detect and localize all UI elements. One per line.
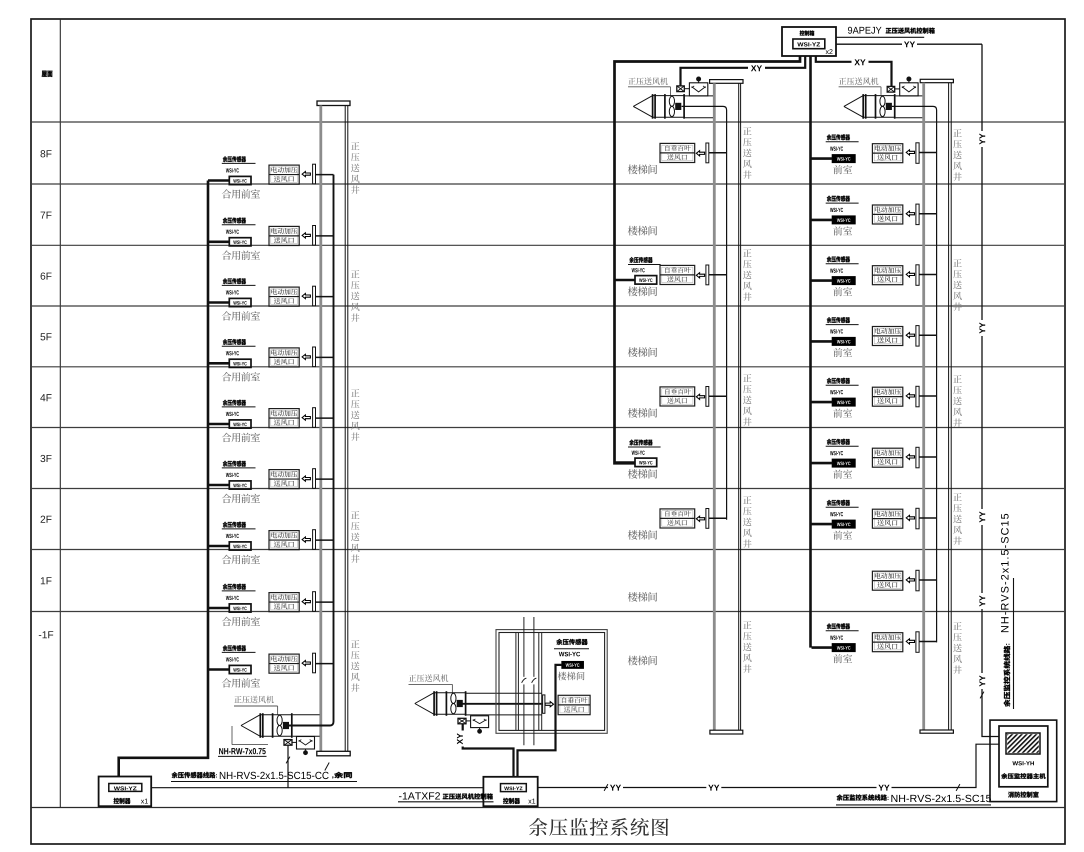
pressure sensor box WSI-YC (8F left) [229, 176, 251, 184]
air outlet 自垂百叶送风口 (6F middle) [660, 265, 695, 284]
floor label 8F [40, 150, 51, 157]
sensor label 余压传感器 / WSI-YC (6F middle) [628, 257, 661, 272]
room label 前室 (7F right) [833, 226, 852, 235]
floor line 8 [31, 611, 1065, 613]
damper blade (1F left) [313, 592, 316, 612]
air flow arrow (-1F stairwell) [545, 702, 553, 707]
pressure sensor box WSI-YC (1F left) [229, 604, 251, 612]
sensor label 余压传感器 / WSI-YC (1F left) [222, 584, 256, 600]
wire sensor-to-bus (5F right) [812, 340, 833, 343]
floor label -1F [39, 631, 53, 638]
right shaft base [920, 730, 953, 733]
wire sensor-to-bus (7F right) [812, 219, 833, 222]
air flow arrow (3F left) [302, 476, 310, 481]
wire damper-to-riser (4F right) [919, 395, 937, 397]
sensor label 余压传感器 / WSI-YC (4F right) [826, 378, 859, 395]
room label 合用前室 (2F left) [222, 555, 260, 564]
wire damper-to-riser (2F right) [919, 517, 937, 519]
label 9APEJY 正压送风机控制箱 [836, 27, 935, 38]
air outlet 电动加压送风口 (6F left) [269, 287, 299, 306]
air flow arrow (4F left) [302, 415, 310, 420]
wire damper-to-riser (8F middle) [709, 152, 727, 154]
floor line 4 [31, 366, 1065, 368]
wire damper-to-riser (8F left) [316, 174, 334, 176]
cable label 余压监控系统线路:NH-RVS-2x1.5-SC15 (bottom) [836, 794, 991, 805]
left shaft walls [321, 106, 348, 752]
wire damper-to-riser (7F right) [919, 213, 937, 215]
wire damper-to-riser (5F right) [919, 334, 937, 336]
damper blade (-1F stairwell) [543, 695, 545, 713]
middle shaft walls [714, 83, 740, 730]
wire sensor-to-bus (6F middle) [615, 279, 636, 282]
sensor label 余压传感器 / WSI-YC (8F right) [826, 134, 859, 151]
left shaft vertical label 正压送风井 #5 [351, 640, 360, 692]
floor label 4F [40, 394, 51, 401]
fan 正压送风机 (-1F left) [241, 713, 293, 738]
wire damper-to-riser (6F right) [919, 274, 937, 276]
air flow arrow (5F left) [302, 354, 310, 359]
controller box WSI-YZ (bottom left) [99, 777, 152, 807]
wire damper-to-riser (3F left) [316, 478, 334, 480]
floor label 2F [41, 516, 52, 523]
damper blade (5F right) [916, 326, 919, 347]
motorized damper actuator (right roof) [895, 77, 918, 96]
pressure sensor box WSI-YC (5F right) [832, 338, 855, 346]
air outlet 自垂百叶送风口 (8F middle) [660, 143, 695, 162]
wire YY (-1ATXF2 to fire control room) [538, 744, 999, 792]
cable label 余压传感器线路:NH-RVS-2x1.5-SC15-CC,余同 [171, 763, 357, 782]
fan label 正压送风机 (-1F middle) [409, 674, 453, 693]
right shaft vertical label 正压送风井 #2 [953, 259, 962, 311]
fan label 正压送风机 (-1F left) [234, 696, 278, 715]
wire sensor-to-bus (-1F right) [812, 646, 833, 649]
floor label 1F [41, 577, 52, 584]
drawing title 余压监控系统图 [529, 818, 668, 836]
middle shaft vertical label 正压送风井 #3 [743, 374, 752, 426]
floor label 屋面 [42, 71, 53, 77]
room label 合用前室 (4F left) [222, 433, 260, 442]
air flow arrow (6F right) [906, 272, 914, 277]
wire damper-to-riser (1F right) [919, 579, 937, 581]
wire damper-to-riser (-1F left) [316, 663, 334, 665]
middle sensor bus wire (vertical from control box to 3F) [615, 56, 801, 463]
wire sensor-to-bus (2F left) [208, 545, 229, 548]
room label 楼梯间 (6F middle) [628, 286, 657, 296]
air flow arrow (8F middle) [696, 151, 704, 156]
air outlet 自垂百叶送风口 (2F middle) [660, 509, 695, 528]
controller box -1ATXF2 (bottom middle) [483, 777, 537, 806]
middle supply-air shaft cap [710, 80, 743, 84]
air outlet 电动加压送风口 (5F left) [269, 348, 299, 367]
room label 楼梯间 (4F middle) [628, 408, 657, 418]
damper blade (-1F right) [916, 632, 919, 653]
damper blade (2F right) [916, 508, 919, 529]
junction box (middle roof fan) [677, 86, 685, 92]
pressure sensor box WSI-YC (6F right) [832, 277, 855, 285]
damper blade (3F right) [916, 447, 919, 468]
sensor label 余压传感器 / WSI-YC (2F right) [826, 500, 859, 517]
air outlet 自垂百叶送风口 (-1F stairwell) [558, 695, 590, 714]
monitor host WSI-YH 余压监控器主机 [999, 726, 1048, 787]
wire junction-box down to controller line (-1F left) [286, 745, 290, 788]
air outlet 电动加压送风口 (3F left) [269, 470, 299, 489]
pressure sensor box WSI-YC (3F left) [229, 481, 251, 489]
motorized damper actuator (middle roof) [684, 77, 708, 96]
damper blade (4F left) [313, 408, 316, 428]
damper blade (8F middle) [706, 143, 709, 163]
air outlet 电动加压送风口 (8F right) [872, 144, 902, 163]
wire sensor-to-bus (3F middle) [615, 461, 636, 464]
middle shaft base [710, 730, 743, 734]
wire sensor-to-bus (6F left) [208, 301, 229, 304]
left shaft vertical label 正压送风井 #2 [351, 270, 360, 322]
floor label 3F [40, 455, 51, 462]
room label 合用前室 (1F left) [222, 617, 260, 626]
air outlet 自垂百叶送风口 (4F middle) [660, 387, 695, 406]
air flow arrow (1F right) [906, 577, 914, 582]
pressure sensor box WSI-YC (2F right) [832, 520, 855, 528]
air flow arrow (4F right) [906, 393, 914, 398]
air flow arrow (6F left) [302, 294, 310, 299]
fan 正压送风机 (right roof) [844, 94, 896, 119]
cable label NH-RW-7x0.75 with leader [218, 726, 268, 756]
sensor label 余压传感器 / WSI-YC (7F right) [826, 196, 859, 213]
air flow arrow (-1F left) [302, 661, 310, 666]
air flow arrow (-1F right) [906, 639, 914, 644]
right shaft vertical label 正压送风井 #1 [953, 129, 962, 181]
air flow arrow (2F right) [906, 515, 914, 520]
sensor label 余压传感器 / WSI-YC (5F left) [222, 339, 256, 355]
supply wire fan axis (-1F middle) [462, 703, 543, 705]
air flow arrow (2F middle) [696, 516, 704, 521]
sensor label 余压传感器 / WSI-YC (3F left) [222, 461, 256, 477]
duct fan-to-shaft (-1F left) [293, 715, 320, 737]
pressure sensor box WSI-YC (-1F left) [229, 665, 251, 673]
wire damper-to-riser (6F left) [316, 296, 334, 298]
pressure sensor box WSI-YC (4F right) [832, 398, 855, 406]
sensor label 余压传感器 / WSI-YC (4F left) [222, 400, 256, 416]
wire sensor-to-bus (1F left) [208, 607, 229, 610]
floor label 5F [40, 333, 51, 340]
left supply-air shaft 正压送风井 (cap) [317, 101, 350, 106]
damper blade (7F right) [916, 204, 919, 225]
duct fan-to-shaft (right roof) [896, 96, 923, 118]
damper blade (8F left) [313, 164, 316, 184]
wire sensor-to-bus (8F right) [812, 157, 833, 160]
wire sensor-to-bus (4F right) [812, 401, 833, 404]
wire damper-to-riser (-1F right) [919, 641, 937, 643]
damper blade (-1F left) [313, 653, 316, 673]
wire sensor-to-bus (2F right) [812, 523, 833, 526]
left shaft vertical label 正压送风井 #1 [351, 142, 360, 194]
wire sensor-to-bus (6F right) [812, 279, 833, 282]
sensor label 余压传感器 / WSI-YC (6F left) [222, 278, 256, 294]
wire damper-to-riser (5F left) [316, 356, 334, 358]
air flow arrow (1F left) [302, 599, 310, 604]
wire damper-to-riser (2F left) [316, 539, 334, 541]
floor line 6 [31, 488, 1065, 490]
middle shaft riser duct line [682, 106, 727, 519]
wire damper-to-riser (3F right) [919, 456, 937, 458]
wire damper-to-riser (8F right) [919, 152, 937, 154]
air flow arrow (7F left) [302, 233, 310, 238]
damper blade (2F left) [313, 530, 316, 550]
air flow arrow (6F middle) [696, 273, 704, 278]
damper blade (8F right) [916, 143, 919, 164]
room label 合用前室 (3F left) [222, 494, 260, 503]
floor line 5 [31, 427, 1065, 429]
wire XY junction-box to controller (-1F middle) [457, 724, 514, 777]
fan 正压送风机 (middle roof) [633, 94, 685, 119]
damper blade (6F middle) [706, 265, 709, 285]
floor line 7 [31, 549, 1065, 551]
pressure sensor box WSI-YC (3F middle) [635, 458, 657, 467]
sensor label 余压传感器 / WSI-YC (-1F stairwell) [554, 639, 589, 657]
middle shaft vertical label 正压送风井 #2 [743, 249, 752, 301]
wire sensor-to-bus (4F left) [208, 423, 229, 426]
wire sensor-to-bus (3F left) [208, 484, 229, 487]
air outlet 电动加压送风口 (6F right) [872, 266, 902, 285]
room label 合用前室 (7F left) [222, 251, 260, 260]
pressure sensor box WSI-YC (-1F stairwell) [562, 662, 583, 669]
damper blade (7F left) [313, 226, 316, 246]
motorized damper actuator (-1F left) [292, 737, 315, 756]
pressure sensor box WSI-YC (8F right) [832, 155, 855, 163]
pressure sensor box WSI-YC (6F middle) [635, 276, 657, 285]
room label 前室 (-1F right) [833, 654, 852, 663]
wire sensor-to-bus (3F right) [812, 462, 833, 465]
floor line 1 [31, 183, 1065, 185]
middle shaft vertical label 正压送风井 #1 [743, 127, 752, 179]
vertical duct through enclosure with break marks [522, 617, 537, 745]
left shaft riser duct line (from -1F fan up to 8F) [288, 175, 334, 726]
room label 合用前室 (8F left) [222, 189, 260, 198]
room label 前室 (5F right) [833, 348, 852, 357]
room label 前室 (6F right) [833, 287, 852, 296]
label -1ATXF2 正压送风机控制箱 [398, 792, 494, 802]
air outlet 电动加压送风口 (7F right) [872, 205, 902, 224]
motorized damper actuator (-1F middle) [466, 716, 489, 734]
floor label column line [59, 19, 61, 808]
pressure sensor box WSI-YC (-1F right) [832, 644, 855, 652]
stairwell enclosure walls (-1F middle) [496, 630, 607, 734]
sensor label 余压传感器 / WSI-YC (7F left) [222, 217, 256, 233]
air flow arrow (2F left) [302, 537, 310, 542]
wire XY (control box to middle roof fan) [681, 56, 806, 86]
room label 前室 (2F right) [833, 531, 852, 540]
room label 前室 (8F right) [833, 165, 852, 174]
middle shaft vertical label 正压送风井 #4 [743, 496, 752, 548]
air flow arrow (4F middle) [696, 394, 704, 399]
room label 楼梯间 (2F middle) [628, 530, 657, 540]
room label 楼梯间 (inside enclosure) [558, 672, 585, 681]
right shaft walls [924, 83, 952, 730]
fire control room 消防控制室 outer box [990, 720, 1057, 802]
room label 前室 (3F right) [833, 470, 852, 479]
sensor label 余压传感器 / WSI-YC (3F middle) [628, 439, 661, 454]
duct fan-to-shaft (middle roof) [685, 96, 713, 118]
wire damper-to-riser (4F middle) [709, 395, 727, 397]
air outlet 电动加压送风口 (5F right) [872, 327, 902, 346]
wire YY vertical (right edge, down to fire control room) [978, 44, 1000, 736]
floor label 7F [41, 212, 52, 219]
pressure sensor box WSI-YC (7F left) [229, 238, 251, 246]
room label 合用前室 (5F left) [222, 372, 260, 381]
wire damper-to-riser (4F left) [316, 417, 334, 419]
sensor label 余压传感器 / WSI-YC (5F right) [826, 317, 859, 334]
air outlet 电动加压送风口 (3F right) [872, 448, 902, 467]
room label 楼梯间 (5F middle) [628, 347, 657, 357]
air outlet 电动加压送风口 (2F right) [872, 509, 902, 528]
pressure sensor box WSI-YC (4F left) [229, 420, 251, 428]
air outlet 电动加压送风口 (1F right) [872, 571, 902, 590]
room label 楼梯间 (7F middle) [628, 226, 657, 236]
room label 楼梯间 (-1F middle) [628, 656, 657, 666]
air outlet 电动加压送风口 (8F left) [269, 165, 299, 184]
air outlet 电动加压送风口 (7F left) [269, 226, 299, 245]
right shaft riser duct line [892, 106, 937, 642]
air outlet 电动加压送风口 (4F right) [872, 387, 902, 406]
fan label 正压送风机 (right roof) [839, 77, 881, 95]
room label 合用前室 (-1F left) [222, 678, 260, 687]
junction box (-1F left fan) [284, 740, 292, 746]
left shaft base [317, 751, 350, 756]
air flow arrow (8F left) [302, 172, 310, 177]
floor line 2 [31, 244, 1065, 246]
damper blade (3F left) [313, 469, 316, 489]
right supply-air shaft cap [920, 79, 953, 82]
damper blade (6F left) [313, 286, 316, 306]
damper blade (1F right) [916, 570, 919, 591]
control box 9APEJY (roof) outer [782, 27, 836, 56]
air flow arrow (8F right) [906, 150, 914, 155]
damper blade (6F right) [916, 265, 919, 286]
air outlet 电动加压送风口 (2F left) [269, 531, 299, 550]
left shaft vertical label 正压送风井 #4 [351, 511, 360, 563]
air flow arrow (5F right) [906, 333, 914, 338]
wire sensor to controller (-1F stairwell) [518, 665, 563, 777]
damper blade (4F right) [916, 386, 919, 407]
right shaft vertical label 正压送风井 #5 [953, 622, 962, 674]
air flow arrow (7F right) [906, 211, 914, 216]
wire YY (roof, control box to right riser) [836, 40, 982, 49]
sensor label 余压传感器 / WSI-YC (-1F left) [222, 645, 256, 661]
sensor label 余压传感器 / WSI-YC (3F right) [826, 439, 859, 456]
right shaft vertical label 正压送风井 #4 [953, 493, 962, 545]
floor line 0 [31, 121, 1065, 123]
pressure sensor box WSI-YC (2F left) [229, 542, 251, 550]
air flow arrow (3F right) [906, 454, 914, 459]
pressure sensor box WSI-YC (5F left) [229, 359, 251, 367]
cable label 余压监控系统线路:NH-RVS-2x1.5-SC15 (vertical right) [1001, 514, 1014, 709]
wire sensor-to-bus (-1F left) [208, 668, 229, 671]
wire sensor-to-bus (5F left) [208, 362, 229, 365]
damper blade (5F left) [313, 347, 316, 367]
title bar separator line [31, 807, 1065, 809]
air outlet 电动加压送风口 (-1F left) [269, 654, 299, 673]
wire sensor-to-bus (7F left) [208, 241, 229, 244]
left shaft vertical label 正压送风井 #3 [351, 389, 360, 441]
wire damper-to-riser (6F middle) [709, 274, 727, 276]
middle shaft vertical label 正压送风井 #5 [743, 621, 752, 673]
pressure sensor box WSI-YC (3F right) [832, 459, 855, 467]
right shaft vertical label 正压送风井 #3 [953, 375, 962, 427]
wire damper-to-riser (1F left) [316, 601, 334, 603]
room label 楼梯间 (8F middle) [628, 164, 657, 174]
air outlet 电动加压送风口 (-1F right) [872, 633, 902, 652]
air outlet 电动加压送风口 (4F left) [269, 409, 299, 428]
sensor label 余压传感器 / WSI-YC (2F left) [222, 522, 256, 538]
floor line 3 [31, 305, 1065, 307]
fan 正压送风机 (-1F middle) [415, 691, 467, 716]
sensor label 余压传感器 / WSI-YC (6F right) [826, 256, 859, 273]
junction box (right roof fan) [887, 86, 895, 92]
fan label 正压送风机 (middle roof) [628, 77, 671, 95]
right sensor bus wire (vertical, from control box to -1F) [809, 56, 812, 648]
wire YY (left controller to -1ATXF2) [151, 787, 483, 789]
duct fan-to-stairwell (-1F middle) [467, 693, 542, 715]
room label 楼梯间 (3F middle) [628, 469, 657, 479]
pressure sensor box WSI-YC (6F left) [229, 298, 251, 306]
wire sensor-to-bus (8F left) [208, 179, 229, 182]
room label 楼梯间 (1F middle) [628, 592, 657, 602]
sensor label 余压传感器 / WSI-YC (-1F right) [826, 623, 859, 640]
junction box (-1F middle fan) [458, 718, 466, 724]
controller module WSI-YZ (roof box) [793, 39, 833, 54]
room label 消防控制室 [1008, 792, 1039, 798]
pressure sensor box WSI-YC (7F right) [832, 216, 855, 224]
air outlet 电动加压送风口 (1F left) [269, 593, 299, 612]
wire damper-to-riser (7F left) [316, 235, 334, 237]
damper blade (2F middle) [706, 509, 709, 529]
room label 前室 (4F right) [833, 409, 852, 418]
wire XY (control box to right roof fan) [816, 56, 892, 86]
room label 合用前室 (6F left) [222, 311, 260, 320]
wire damper-to-riser (2F middle) [709, 517, 727, 519]
left sensor bus wire (vertical, to controller) [119, 181, 208, 777]
sensor label 余压传感器 / WSI-YC (8F left) [222, 156, 256, 172]
damper blade (4F middle) [706, 387, 709, 407]
floor label 6F [41, 272, 52, 279]
